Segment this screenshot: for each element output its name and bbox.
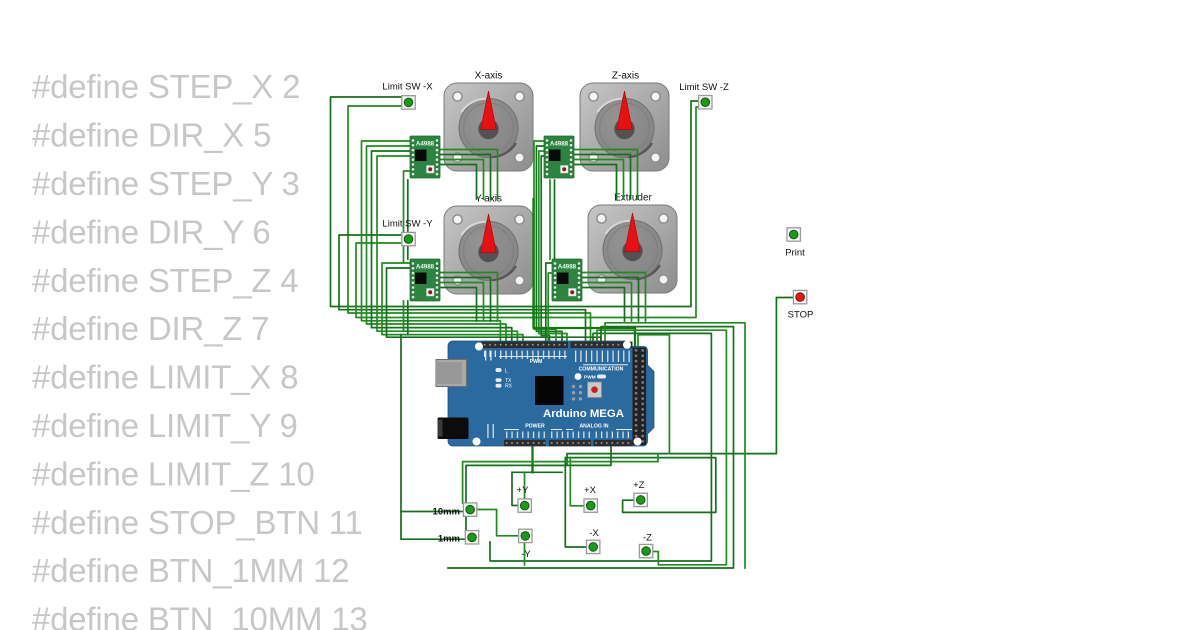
svg-text:Limit SW -Z: Limit SW -Z (679, 82, 729, 93)
svg-text:PWM: PWM (584, 375, 596, 381)
svg-text:#define LIMIT_Y 9: #define LIMIT_Y 9 (32, 407, 298, 444)
svg-text:#define DIR_Z 7: #define DIR_Z 7 (32, 310, 269, 347)
svg-text:POWER: POWER (525, 424, 545, 430)
svg-text:#define STEP_X 2: #define STEP_X 2 (32, 68, 300, 105)
svg-text:PWM: PWM (530, 359, 543, 365)
svg-text:Z-axis: Z-axis (612, 71, 639, 82)
svg-text:Arduino MEGA: Arduino MEGA (543, 408, 624, 420)
svg-text:#define STEP_Z 4: #define STEP_Z 4 (32, 262, 298, 299)
svg-text:+Z: +Z (633, 480, 645, 491)
svg-text:COMMUNICATION: COMMUNICATION (579, 367, 624, 373)
svg-text:#define LIMIT_Z 10: #define LIMIT_Z 10 (32, 455, 315, 492)
svg-text:+X: +X (584, 485, 597, 496)
svg-text:Limit SW -Y: Limit SW -Y (382, 219, 433, 230)
svg-text:Extruder: Extruder (614, 193, 652, 204)
svg-text:ANALOG IN: ANALOG IN (579, 424, 608, 430)
svg-text:+Y: +Y (517, 485, 530, 496)
svg-text:#define DIR_X 5: #define DIR_X 5 (32, 117, 271, 154)
svg-text:-X: -X (589, 528, 599, 539)
svg-text:-Y: -Y (521, 549, 531, 560)
svg-text:#define STEP_Y 3: #define STEP_Y 3 (32, 165, 300, 202)
svg-text:#define LIMIT_X 8: #define LIMIT_X 8 (32, 359, 298, 396)
svg-text:RX: RX (505, 384, 513, 390)
svg-text:#define DIR_Y 6: #define DIR_Y 6 (32, 213, 271, 250)
svg-text:10mm: 10mm (433, 507, 460, 518)
svg-text:1mm: 1mm (438, 534, 460, 545)
svg-text:#define BTN_10MM 13: #define BTN_10MM 13 (32, 601, 368, 630)
svg-text:-Z: -Z (643, 533, 652, 544)
svg-text:#define STOP_BTN 11: #define STOP_BTN 11 (32, 504, 363, 541)
svg-text:#define BTN_1MM 12: #define BTN_1MM 12 (32, 552, 349, 589)
svg-text:Limit SW -X: Limit SW -X (382, 82, 433, 93)
svg-text:Print: Print (785, 248, 805, 259)
svg-text:L: L (505, 368, 508, 374)
svg-text:X-axis: X-axis (475, 71, 503, 82)
svg-text:STOP: STOP (788, 310, 814, 321)
